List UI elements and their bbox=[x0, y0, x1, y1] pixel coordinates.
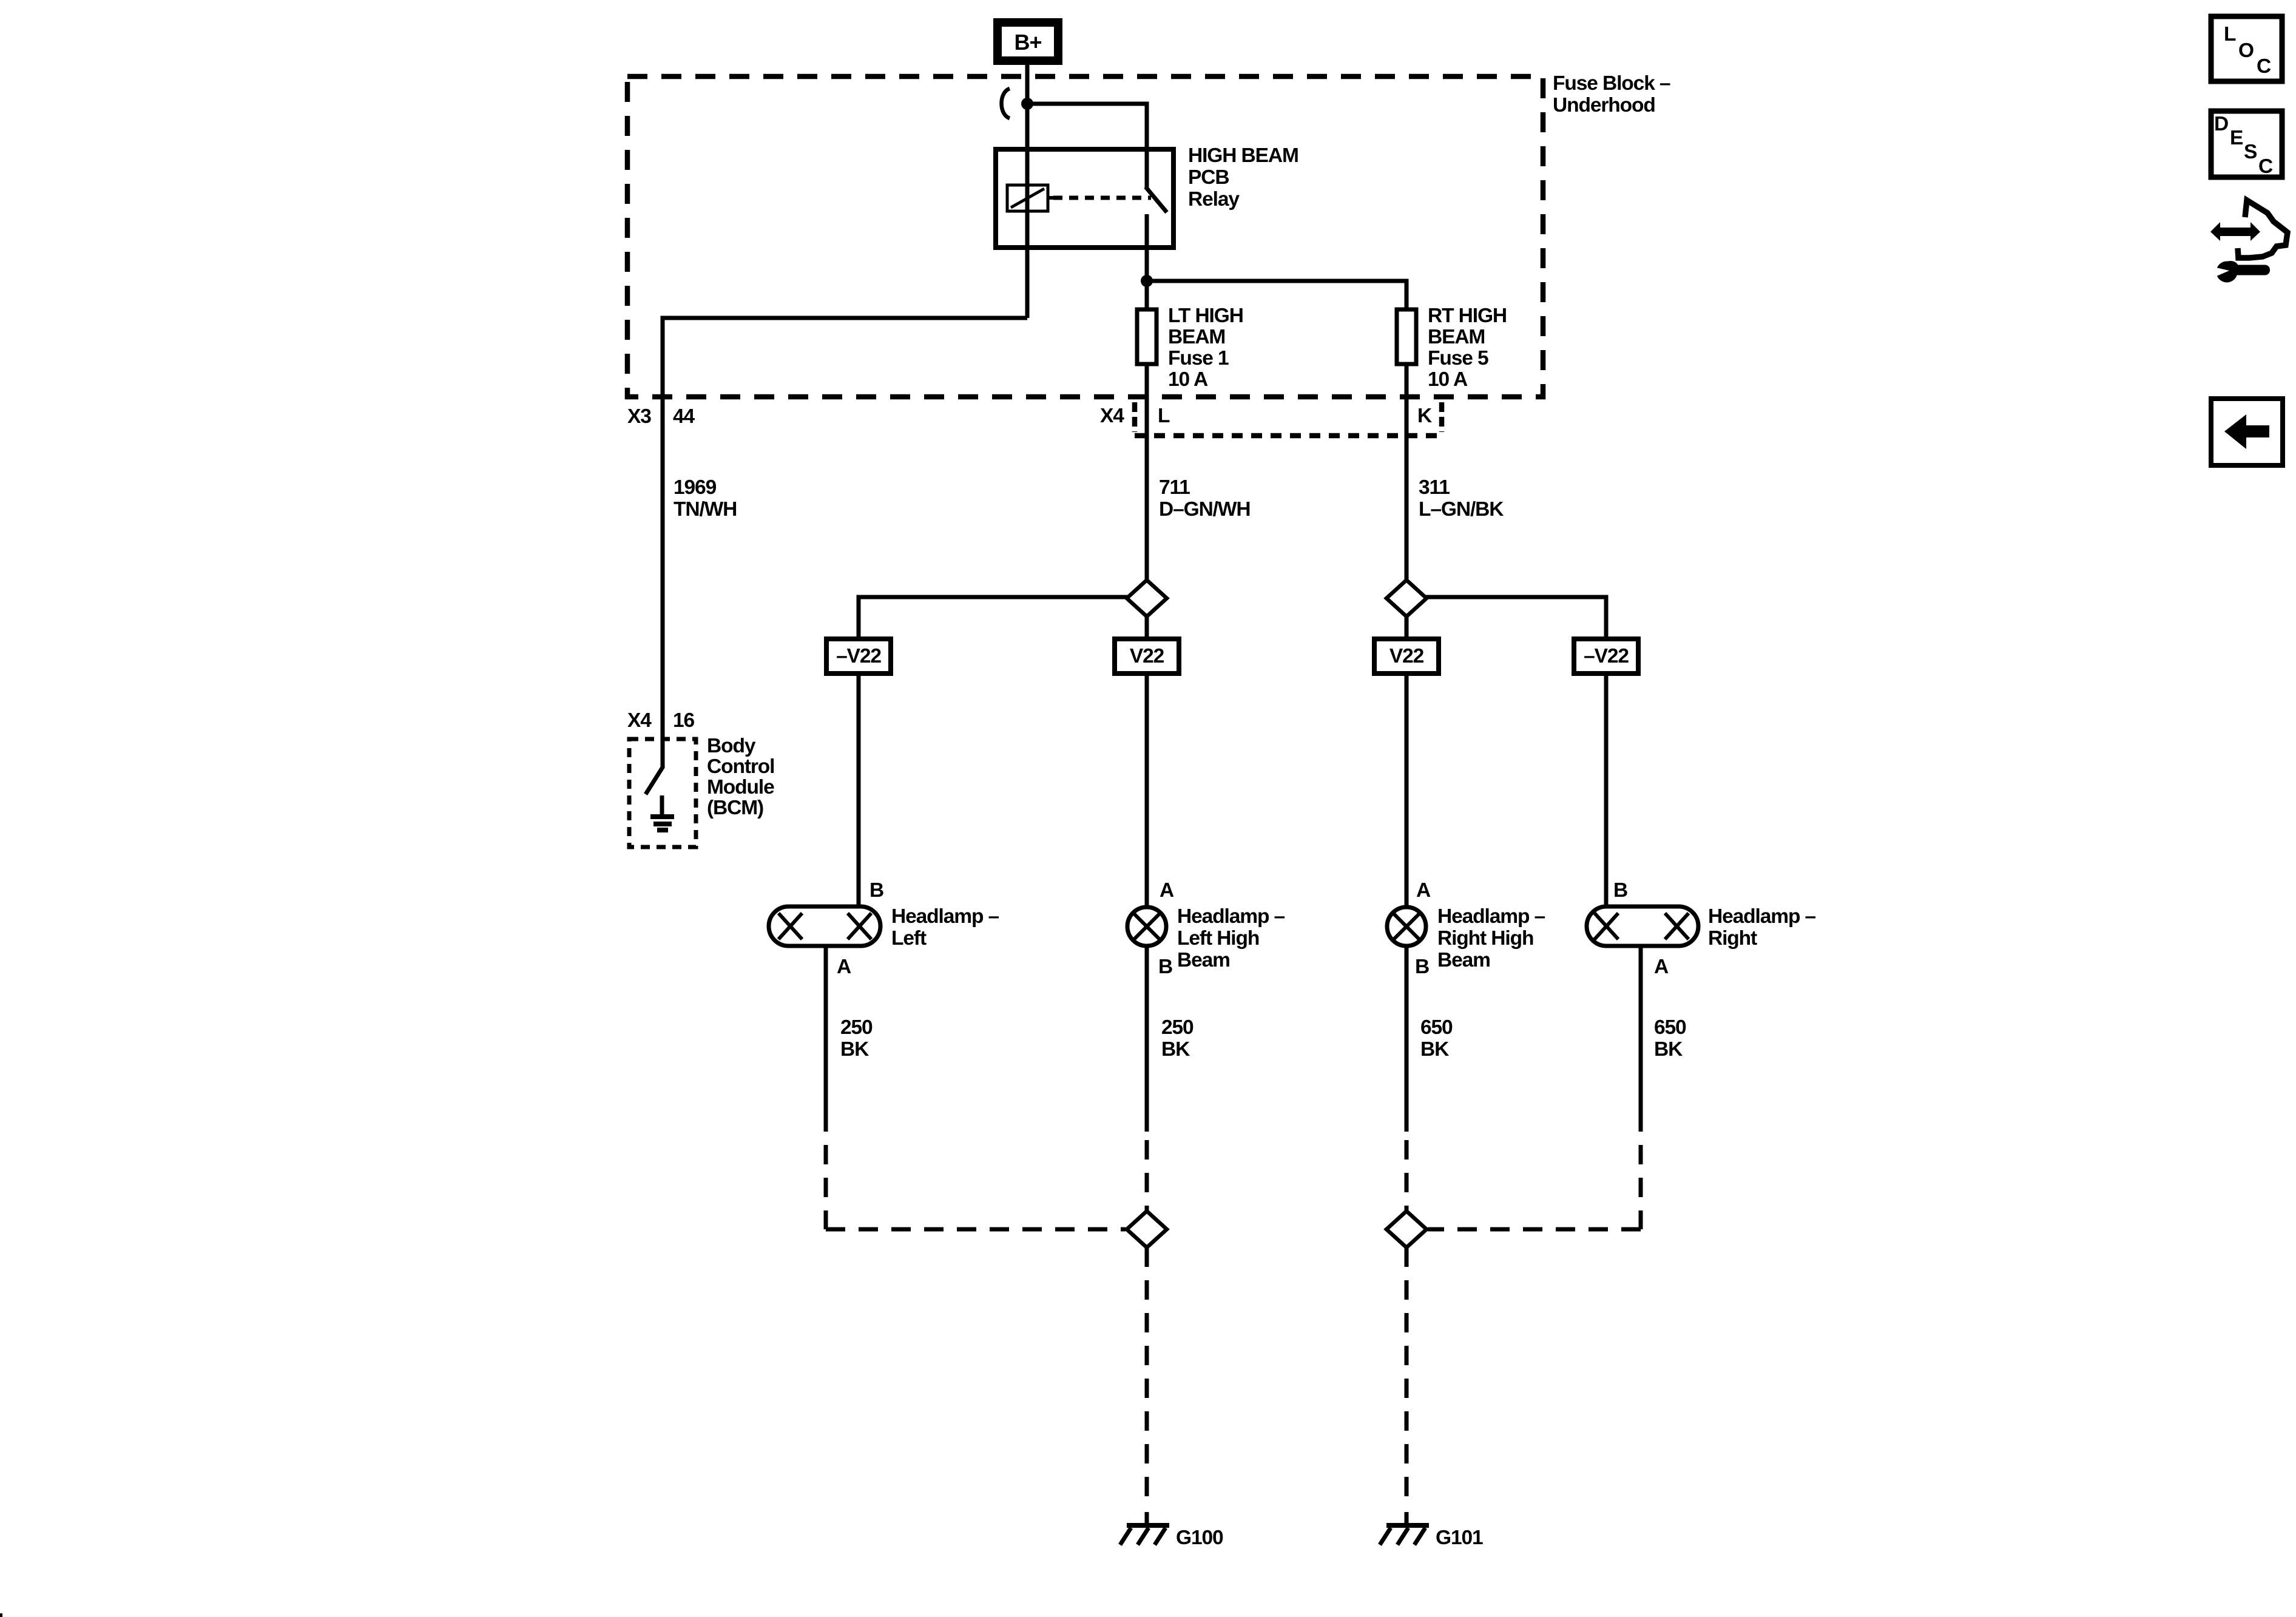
wire 250 BK label lamp2 bbox=[1161, 1016, 1194, 1061]
wire dashed splice to G101 bbox=[1405, 1247, 1409, 1499]
connector V22 box 3 bbox=[1374, 639, 1439, 673]
connector X4 pins L and K dashed box bbox=[1135, 402, 1445, 436]
svg-text:Left High: Left High bbox=[1177, 927, 1259, 950]
wire 650 BK label lamp3 bbox=[1420, 1016, 1453, 1061]
wire V22 to headlamp right high beam bbox=[1405, 673, 1409, 907]
svg-text:650: 650 bbox=[1420, 1016, 1453, 1039]
svg-text:S: S bbox=[2244, 141, 2257, 163]
wire lamp2 dashed to splice G100 bbox=[1145, 1132, 1149, 1211]
wire lamp4 ground lead solid bbox=[1639, 946, 1643, 1132]
wire 711 D-GN/WH bbox=[1145, 364, 1149, 581]
B+ power terminal bbox=[998, 22, 1058, 61]
svg-text:10 A: 10 A bbox=[1168, 368, 1208, 391]
icon back arrow button bbox=[2211, 399, 2283, 465]
svg-text:V22: V22 bbox=[1130, 645, 1164, 667]
svg-text:250: 250 bbox=[1161, 1016, 1194, 1039]
wire relay output bbox=[1145, 248, 1149, 311]
relay switch contact bbox=[1146, 149, 1167, 248]
wire lamp1 ground lead solid bbox=[824, 946, 828, 1132]
wire V22 to headlamp left high beam bbox=[1145, 673, 1149, 907]
icon LOC button bbox=[2211, 16, 2282, 81]
wire junction to relay switch bbox=[1027, 104, 1147, 149]
svg-text:TN/WH: TN/WH bbox=[674, 498, 737, 521]
svg-text:Module: Module bbox=[707, 776, 774, 798]
svg-text:Control: Control bbox=[707, 755, 774, 778]
svg-text:Beam: Beam bbox=[1437, 949, 1490, 971]
connector -V22 box 4 bbox=[1574, 639, 1638, 673]
svg-text:X4: X4 bbox=[627, 709, 652, 732]
wire lamp1 dashed to splice G100 bbox=[824, 1132, 828, 1229]
splice S1 diamond on 711 wire bbox=[1127, 580, 1167, 616]
svg-text:10 A: 10 A bbox=[1428, 368, 1468, 391]
wire 311 L-GN/BK bbox=[1405, 364, 1409, 581]
svg-text:X3: X3 bbox=[627, 405, 651, 428]
icon DESC button bbox=[2211, 111, 2282, 178]
svg-text:B: B bbox=[1613, 879, 1627, 902]
wire lamp3 dashed to splice G101 bbox=[1405, 1132, 1409, 1211]
svg-text:–V22: –V22 bbox=[1584, 645, 1629, 667]
svg-text:Headlamp –: Headlamp – bbox=[1177, 905, 1285, 928]
svg-text:Underhood: Underhood bbox=[1553, 94, 1655, 116]
lamp headlamp left (dual) bbox=[769, 906, 880, 946]
svg-text:B: B bbox=[1158, 956, 1172, 978]
svg-text:BEAM: BEAM bbox=[1428, 326, 1485, 348]
splice S2 diamond on 311 wire bbox=[1386, 580, 1427, 616]
wire V22 to headlamp right bbox=[1604, 673, 1609, 906]
svg-text:A: A bbox=[1654, 956, 1669, 978]
svg-text:L–GN/BK: L–GN/BK bbox=[1419, 498, 1504, 521]
connector V22 box 2 bbox=[1115, 639, 1179, 673]
wire dashed splice to G100 bbox=[1145, 1247, 1149, 1499]
svg-text:BK: BK bbox=[1654, 1038, 1683, 1061]
BCM internal switch bbox=[646, 739, 663, 794]
svg-text:G101: G101 bbox=[1436, 1527, 1483, 1549]
svg-text:44: 44 bbox=[673, 405, 695, 428]
svg-text:L: L bbox=[1158, 405, 1170, 427]
node junction feed both fuses bbox=[1141, 275, 1153, 287]
svg-text:BK: BK bbox=[840, 1038, 869, 1061]
svg-text:RT HIGH: RT HIGH bbox=[1428, 305, 1507, 327]
svg-text:C: C bbox=[2258, 155, 2273, 178]
svg-text:Relay: Relay bbox=[1188, 188, 1240, 211]
lamp headlamp right high beam bbox=[1387, 907, 1426, 946]
svg-text:BK: BK bbox=[1420, 1038, 1449, 1061]
svg-text:–V22: –V22 bbox=[836, 645, 881, 667]
svg-text:Right: Right bbox=[1708, 927, 1757, 950]
relay actuation dashed link bbox=[1053, 196, 1151, 200]
svg-text:V22: V22 bbox=[1389, 645, 1424, 667]
wire 1969 TN/WH label bbox=[674, 476, 737, 521]
svg-text:E: E bbox=[2230, 127, 2243, 149]
fuse block label bbox=[1553, 72, 1670, 116]
fuse RT HIGH BEAM Fuse 5 bbox=[1397, 309, 1416, 364]
connector X4 pin 16 label bbox=[627, 709, 695, 732]
svg-text:O: O bbox=[2238, 39, 2254, 62]
svg-text:Headlamp –: Headlamp – bbox=[1437, 905, 1545, 928]
svg-text:Headlamp –: Headlamp – bbox=[891, 905, 999, 928]
ground G101 symbol bbox=[1380, 1512, 1429, 1545]
svg-text:650: 650 bbox=[1654, 1016, 1686, 1039]
svg-text:250: 250 bbox=[840, 1016, 873, 1039]
svg-text:(BCM): (BCM) bbox=[707, 797, 763, 819]
svg-text:K: K bbox=[1417, 405, 1432, 427]
wire branch left headlamp bbox=[859, 597, 1127, 638]
svg-text:B: B bbox=[1415, 956, 1429, 978]
connector -V22 box 1 bbox=[826, 639, 891, 673]
svg-text:G100: G100 bbox=[1176, 1527, 1223, 1549]
svg-text:Headlamp –: Headlamp – bbox=[1708, 905, 1816, 928]
page artifact dot bbox=[0, 1613, 2, 1617]
wire lamp2 ground lead solid bbox=[1145, 946, 1149, 1132]
lamp4 name label bbox=[1708, 905, 1816, 950]
svg-text:HIGH BEAM: HIGH BEAM bbox=[1188, 144, 1298, 167]
relay HIGH BEAM PCB Relay box bbox=[996, 149, 1173, 248]
clip symbol at fuse block feed bbox=[1002, 89, 1010, 118]
svg-text:A: A bbox=[1416, 879, 1431, 902]
lamp2 name label bbox=[1177, 905, 1285, 971]
wire B+ feed vertical bbox=[1025, 61, 1030, 318]
svg-text:PCB: PCB bbox=[1188, 166, 1229, 189]
svg-text:Fuse Block –: Fuse Block – bbox=[1553, 72, 1670, 95]
splice S4 diamond ground right bbox=[1386, 1211, 1427, 1247]
lamp headlamp left high beam bbox=[1127, 907, 1166, 946]
svg-text:BK: BK bbox=[1161, 1038, 1190, 1061]
lamp headlamp right (dual) bbox=[1587, 906, 1698, 946]
wire V22 to headlamp left bbox=[857, 673, 861, 906]
svg-text:1969: 1969 bbox=[674, 476, 717, 499]
lamp3 name label bbox=[1437, 905, 1545, 971]
fuse 1 labels bbox=[1168, 305, 1243, 391]
svg-text:711: 711 bbox=[1159, 476, 1190, 499]
svg-text:Fuse 5: Fuse 5 bbox=[1428, 347, 1488, 370]
relay labels bbox=[1188, 144, 1298, 211]
BCM labels bbox=[707, 735, 774, 819]
fuse 5 labels bbox=[1428, 305, 1507, 391]
svg-text:L: L bbox=[2224, 23, 2236, 46]
lamp1 name label bbox=[891, 905, 999, 950]
wire branch right headlamp bbox=[1426, 597, 1606, 638]
svg-text:Right High: Right High bbox=[1437, 927, 1533, 950]
svg-text:B: B bbox=[869, 879, 883, 902]
relay coil bbox=[1007, 185, 1053, 211]
svg-text:B+: B+ bbox=[1014, 30, 1041, 55]
svg-text:A: A bbox=[1160, 879, 1174, 902]
wire 650 BK label lamp4 bbox=[1654, 1016, 1686, 1061]
svg-text:Body: Body bbox=[707, 735, 756, 757]
connector X4 labels bbox=[1100, 405, 1432, 427]
wire left branch to BCM bbox=[663, 318, 1027, 739]
svg-text:A: A bbox=[837, 956, 851, 978]
body control module BCM dashed box bbox=[629, 739, 696, 847]
wire splice to connector V22 left bbox=[1145, 616, 1149, 638]
ground G100 symbol bbox=[1120, 1512, 1169, 1545]
svg-text:C: C bbox=[2257, 55, 2271, 78]
svg-text:D: D bbox=[2214, 113, 2228, 135]
wire 250 BK label lamp1 bbox=[840, 1016, 873, 1061]
svg-text:16: 16 bbox=[673, 709, 695, 732]
wire lamp4 dashed to splice G101 bbox=[1639, 1132, 1643, 1229]
connector X3 pin 44 bbox=[627, 405, 695, 428]
svg-text:BEAM: BEAM bbox=[1168, 326, 1225, 348]
icon vehicle outline with arrow and wrench bbox=[2210, 200, 2288, 283]
svg-text:LT HIGH: LT HIGH bbox=[1168, 305, 1243, 327]
splice S3 diamond ground left bbox=[1127, 1211, 1167, 1247]
wire splice to connector V22 right bbox=[1405, 616, 1409, 638]
BCM internal ground bbox=[650, 795, 674, 830]
wire lamp3 ground lead solid bbox=[1405, 946, 1409, 1132]
fuse LT HIGH BEAM Fuse 1 bbox=[1137, 309, 1156, 364]
svg-text:Left: Left bbox=[891, 927, 927, 950]
fuse block - underhood dashed enclosure bbox=[627, 76, 1543, 397]
svg-text:Fuse 1: Fuse 1 bbox=[1168, 347, 1229, 370]
svg-text:D–GN/WH: D–GN/WH bbox=[1159, 498, 1251, 521]
svg-text:X4: X4 bbox=[1100, 405, 1124, 427]
svg-text:Beam: Beam bbox=[1177, 949, 1230, 971]
svg-text:311: 311 bbox=[1419, 476, 1450, 499]
wire to RT fuse bbox=[1147, 281, 1406, 311]
node junction at B+ branch bbox=[1021, 98, 1033, 110]
